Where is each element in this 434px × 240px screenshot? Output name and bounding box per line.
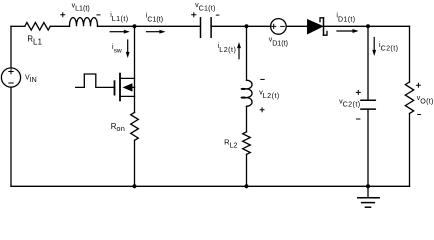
svg-text:iC1(t): iC1(t) (146, 13, 163, 24)
svg-text:vL1(t): vL1(t) (72, 2, 90, 12)
svg-text:VIN: VIN (25, 74, 37, 83)
svg-text:RL2: RL2 (224, 137, 237, 149)
svg-text:iC2(t): iC2(t) (379, 42, 398, 53)
svg-text:vL2(t): vL2(t) (259, 89, 280, 99)
svg-text:vO(t): vO(t) (417, 95, 434, 105)
svg-text:vC2(t): vC2(t) (339, 98, 361, 108)
svg-text:RL1: RL1 (27, 35, 42, 47)
svg-text:iL2(t): iL2(t) (218, 43, 237, 54)
svg-text:isw: isw (112, 44, 122, 55)
svg-text:vC1(t): vC1(t) (195, 2, 216, 12)
svg-text:iL1(t): iL1(t) (110, 12, 128, 23)
svg-text:iD1(t): iD1(t) (336, 12, 355, 23)
svg-text:vD1(t): vD1(t) (269, 37, 288, 48)
svg-text:Ron: Ron (111, 122, 125, 133)
